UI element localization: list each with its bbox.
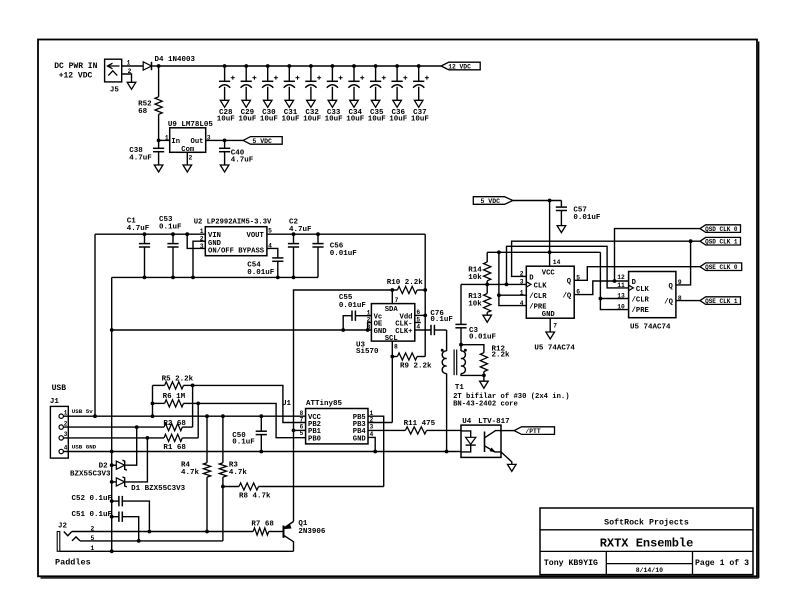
junction Q9 to QSD CLK 1	[689, 239, 693, 243]
wire paddle dah line	[80, 540, 223, 542]
junction C56 top	[316, 232, 320, 236]
svg-text:3: 3	[520, 278, 524, 285]
svg-text:Si570: Si570	[356, 348, 379, 356]
svg-text:5 VDC: 5 VDC	[481, 198, 501, 205]
optocoupler U4 LTV-817	[461, 425, 501, 457]
svg-text:D1 BZX55C3V3: D1 BZX55C3V3	[131, 485, 186, 493]
svg-text:PB0: PB0	[308, 436, 321, 444]
junction 12V at D4 cathode	[157, 64, 161, 68]
svg-text:1: 1	[165, 135, 169, 142]
svg-text:10uF: 10uF	[389, 116, 408, 124]
resistor R14 10k	[486, 252, 488, 262]
wire SDA over-route to PB1	[294, 290, 393, 522]
svg-text:U2 LP2992AIM5-3.3V: U2 LP2992AIM5-3.3V	[194, 218, 272, 226]
svg-text:/PRE: /PRE	[529, 303, 547, 311]
junction R6 right	[196, 402, 200, 406]
capacitor C30 10uF	[267, 66, 269, 81]
svg-text:USB 5v: USB 5v	[72, 408, 93, 415]
svg-text:8/14/10: 8/14/10	[636, 567, 663, 574]
wire CLK line from C3	[461, 283, 526, 285]
svg-text:Com: Com	[181, 146, 195, 154]
svg-text:10k: 10k	[468, 274, 482, 282]
svg-text:4.7uF: 4.7uF	[289, 226, 312, 234]
net tag /PTT	[514, 427, 554, 435]
svg-text:10uF: 10uF	[260, 116, 279, 124]
junction T1 ground	[445, 450, 449, 454]
junction C50 top	[259, 414, 263, 418]
resistor R52 68	[155, 97, 162, 115]
zener D2 BZX55C3V3	[112, 464, 117, 466]
svg-text:12: 12	[617, 274, 625, 281]
svg-text:BZX55C3V3: BZX55C3V3	[70, 470, 111, 478]
svg-text:10k: 10k	[468, 300, 482, 308]
capacitor C50 0.1uF	[260, 416, 262, 431]
svg-text:4.7uF: 4.7uF	[127, 225, 150, 233]
capacitor C51 0.1uF	[112, 516, 119, 518]
connector J1	[50, 406, 68, 458]
resistor R9 2.2k	[392, 356, 397, 358]
power tag 5 VDC mid	[473, 197, 513, 205]
capacitor C40 4.7uF	[224, 140, 226, 148]
svg-text:4: 4	[520, 300, 524, 307]
junction C2 top	[292, 232, 296, 236]
junction VCC 5V line	[548, 250, 552, 254]
capacitor C32 10uF	[310, 66, 312, 81]
svg-text:VCC: VCC	[542, 269, 556, 277]
title block column divider right	[692, 551, 694, 574]
resistor R6 1M	[153, 402, 165, 404]
wire U9 Out to 5VDC tag	[206, 139, 243, 141]
wire U2 VOUT 3.3V rail	[267, 233, 425, 235]
wire Q9 up to QSD CLK 1	[676, 241, 691, 285]
junction C2 bottom	[292, 276, 296, 280]
svg-text:4.7k: 4.7k	[181, 469, 200, 477]
capacitor C54 0.01uF	[272, 257, 283, 259]
diode D4 1N4003	[143, 62, 151, 70]
wire OE stub to ground	[368, 323, 372, 331]
wire SDA pin7 stub	[391, 290, 393, 304]
resistor R1 68	[164, 434, 182, 441]
svg-text:12 VDC: 12 VDC	[448, 63, 471, 70]
junction C53 bottom	[171, 276, 175, 280]
wire PB5 to R8	[368, 416, 384, 486]
junction R4 bottom	[205, 530, 209, 534]
svg-text:2: 2	[520, 271, 524, 278]
junction 5V to U5a CLR	[497, 250, 501, 254]
jack J2 tip contact	[64, 532, 72, 536]
junction C55 to ground line	[341, 328, 345, 332]
wire CLK over to U5b pin11	[507, 246, 629, 288]
junction C52 left	[110, 499, 114, 503]
transformer T1 right winding	[461, 351, 465, 374]
wire VIN rail	[95, 233, 205, 235]
junction CLK up-over	[505, 283, 509, 287]
wire Vdd stub	[415, 314, 425, 316]
wire SCL down to PB3	[391, 357, 393, 423]
svg-text:DC PWR IN: DC PWR IN	[54, 62, 97, 71]
svg-text:10uF: 10uF	[325, 116, 344, 124]
wire +12V rail	[159, 65, 442, 67]
svg-text:10uF: 10uF	[238, 116, 257, 124]
net tag QSE CLK 0	[700, 263, 742, 271]
svg-text:R11 475: R11 475	[404, 420, 436, 428]
zener D1 BZX55C3V3	[112, 481, 117, 483]
svg-text:D4 1N4003: D4 1N4003	[155, 56, 196, 64]
net tag QSD CLK 0	[700, 225, 741, 233]
jack J2 ring contact	[72, 537, 80, 541]
svg-text:/CLR: /CLR	[529, 293, 547, 301]
svg-text:2: 2	[200, 236, 204, 243]
wire D+ to PB0	[198, 403, 305, 437]
ground at C28	[220, 100, 229, 107]
junction U2 GND to bus	[191, 276, 195, 280]
capacitor C57 0.01uF	[560, 201, 562, 208]
junction C30 on 12V rail	[266, 64, 270, 68]
ground at C35	[371, 100, 380, 107]
svg-text:QSD CLK 0: QSD CLK 0	[705, 226, 738, 233]
capacitor C34 10uF	[353, 66, 355, 81]
svg-text:Q: Q	[669, 283, 674, 291]
resistor R7 68	[253, 528, 269, 535]
svg-text:2: 2	[189, 155, 193, 162]
ground at C29	[242, 100, 251, 107]
title block column divider left	[605, 551, 607, 574]
jack J2 sleeve	[57, 532, 60, 552]
junction U9 input	[157, 139, 161, 143]
junction SCL	[390, 355, 394, 359]
svg-text:7: 7	[300, 417, 304, 424]
svg-text:1: 1	[200, 228, 204, 235]
capacitor C36 10uF	[396, 66, 398, 81]
svg-text:U9 LM78L05: U9 LM78L05	[168, 121, 214, 129]
junction C28 on 12V rail	[223, 64, 227, 68]
ground at R13	[483, 315, 492, 322]
svg-text:4.7uF: 4.7uF	[231, 157, 254, 165]
wire T1 secondary top	[460, 345, 462, 351]
svg-text:8: 8	[394, 344, 398, 351]
junction C33 on 12V rail	[331, 64, 335, 68]
wire ON/OFF to VIN	[187, 234, 205, 248]
ground at U4 emitter	[508, 464, 517, 471]
wire U9 Com to ground	[186, 152, 188, 165]
wire ground bus down left side	[111, 277, 113, 551]
svg-text:CLK: CLK	[636, 286, 650, 294]
wire 5V to U5a /CLR and /PRE	[499, 252, 526, 305]
wire to U5a pin1 /CLR	[499, 294, 526, 296]
junction R6 left	[151, 402, 155, 406]
title block row divider 2	[540, 550, 753, 552]
svg-text:3: 3	[200, 243, 204, 250]
svg-text:5 VDC: 5 VDC	[252, 138, 272, 145]
ground at C34	[350, 100, 359, 107]
wire paddle sleeve line	[60, 550, 294, 552]
wire U2 GND stub	[193, 241, 205, 277]
junction R3 top	[221, 414, 225, 418]
wire D- to PB2	[193, 385, 306, 422]
wire USB5V riser to U2 VIN rail	[94, 234, 96, 416]
wire to R12 top	[461, 345, 484, 353]
junction VCC feed	[548, 199, 552, 203]
svg-text:J1: J1	[50, 398, 60, 406]
svg-text:4: 4	[64, 445, 68, 452]
junction D2 clamp	[135, 425, 139, 429]
svg-text:GND: GND	[353, 436, 367, 444]
wire Q5 to QSE CLK 0	[574, 267, 700, 281]
junction D1 anode	[110, 480, 114, 484]
junction /CLR U5a	[497, 293, 501, 297]
svg-text:J2: J2	[58, 523, 68, 531]
svg-text:In: In	[171, 138, 180, 146]
wire R12 to ground	[483, 375, 485, 381]
svg-text:2.2k: 2.2k	[492, 352, 511, 360]
svg-text:BN-43-2402 core: BN-43-2402 core	[453, 401, 518, 409]
svg-text:10: 10	[617, 304, 625, 311]
resistor R3 4.7k	[222, 416, 224, 463]
junction ground bus tie	[110, 450, 114, 454]
ground at C37	[414, 100, 423, 107]
svg-text:10uF: 10uF	[411, 116, 430, 124]
wire 5V pullup line	[487, 251, 600, 253]
junction SDA to PB1	[292, 429, 296, 433]
wire U4 emitter to ground	[495, 452, 512, 465]
resistor R12 2.2k	[480, 353, 487, 372]
junction C34 on 12V rail	[352, 64, 356, 68]
power tag 5 VDC	[243, 137, 282, 145]
wire QSD CLK 1 net to U5a D	[512, 241, 700, 276]
regulator U9 LM78L05	[170, 128, 206, 153]
capacitor C1 4.7uF	[144, 234, 146, 243]
ground at U5a	[546, 332, 555, 339]
junction C51 left	[110, 515, 114, 519]
resistor R11 475	[405, 427, 426, 434]
svg-text:Out: Out	[191, 138, 204, 146]
svg-text:RXTX Ensemble: RXTX Ensemble	[600, 537, 694, 551]
junction R8 tap	[221, 485, 225, 489]
svg-text:GND: GND	[208, 240, 222, 248]
svg-text:D: D	[529, 274, 534, 282]
junction R4 top	[205, 414, 209, 418]
junction ON/OFF tie	[185, 232, 189, 236]
flip-flop U5b 74AC74	[629, 272, 676, 318]
svg-text:3: 3	[370, 424, 374, 431]
junction R5R6 left	[151, 414, 155, 418]
svg-text:LTV-817: LTV-817	[478, 418, 510, 426]
wire QSD CLK 0	[615, 229, 701, 281]
wire to U5b pin13 /CLR	[600, 298, 628, 300]
svg-text:2N3906: 2N3906	[298, 528, 326, 536]
ground at C57	[557, 226, 566, 233]
svg-text:SoftRock Projects: SoftRock Projects	[604, 518, 689, 528]
wire USB D+ line with R1	[63, 437, 164, 439]
svg-text:4.7k: 4.7k	[229, 469, 248, 477]
wire CLK+ down to T1 primary	[446, 330, 448, 351]
svg-text:R10 2.2k: R10 2.2k	[387, 279, 424, 287]
svg-text:BYPASS: BYPASS	[238, 248, 265, 256]
wire USB D- line with R2	[63, 426, 164, 428]
svg-text:USB GND: USB GND	[72, 444, 97, 451]
svg-text:SDA: SDA	[385, 306, 399, 314]
wire PB1 stub	[294, 429, 306, 431]
J1 pin1 circle	[59, 414, 63, 418]
svg-text:7: 7	[553, 322, 557, 329]
svg-text:14: 14	[553, 259, 561, 266]
wire 5VDC to C57	[513, 200, 562, 202]
svg-text:10uF: 10uF	[217, 116, 236, 124]
wire 3.3V down to Vdd	[424, 234, 426, 356]
wire PB4 to R11	[368, 429, 405, 431]
svg-text:4.7uF: 4.7uF	[129, 154, 152, 162]
transformer T1 core	[453, 350, 455, 376]
svg-text:U5 74AC74: U5 74AC74	[630, 324, 671, 332]
svg-text:13: 13	[617, 293, 625, 300]
wire R1 up to R6	[197, 403, 199, 438]
wire GND pin4	[368, 437, 375, 451]
net tag QSD CLK 1	[700, 237, 741, 245]
svg-text:QSE CLK 0: QSE CLK 0	[705, 264, 738, 271]
wire /Q8 to QSE CLK 1	[676, 300, 700, 302]
title block row divider 1	[540, 529, 753, 531]
capacitor C2 4.7uF	[293, 234, 295, 243]
svg-text:0.1uF: 0.1uF	[159, 224, 182, 232]
junction C36 on 12V rail	[395, 64, 399, 68]
svg-text:0.01uF: 0.01uF	[469, 333, 497, 341]
ground at C31	[285, 100, 294, 107]
wire PB3 stub	[368, 422, 392, 424]
ground at R12	[480, 381, 489, 388]
wire into U9 pin1	[159, 139, 170, 141]
junction C32 on 12V rail	[309, 64, 313, 68]
resistor R2 68	[164, 424, 182, 431]
wire D4 junction down to R52	[158, 66, 160, 97]
T1 phase dot right	[464, 349, 467, 352]
capacitor C38 4.7uF	[158, 140, 160, 148]
capacitor C76 0.1uF on CLK+	[415, 329, 431, 331]
ground at C36	[393, 100, 402, 107]
net tag QSE CLK 1	[700, 297, 741, 305]
ground at C40	[220, 165, 229, 172]
svg-text:CLK: CLK	[534, 282, 548, 290]
junction C53 top	[171, 232, 175, 236]
title block border	[540, 508, 753, 575]
svg-text:0.01uF: 0.01uF	[573, 214, 601, 222]
svg-text:/PTT: /PTT	[526, 428, 541, 435]
svg-text:QSE CLK 1: QSE CLK 1	[705, 298, 738, 305]
svg-text:D2: D2	[99, 463, 109, 471]
wire T1 secondary bottom to R12	[461, 374, 484, 376]
U4 LED	[461, 431, 471, 437]
T1 phase dot left	[441, 349, 444, 352]
svg-text:Tony KB9YIG: Tony KB9YIG	[544, 559, 598, 568]
junction R10 right	[423, 288, 427, 292]
wire 3.3V ground bus	[112, 276, 318, 278]
svg-text:11: 11	[617, 282, 625, 289]
wire VCC down to pin14	[549, 201, 551, 267]
ground at U9 Com	[183, 165, 192, 172]
svg-text:0.01uF: 0.01uF	[339, 302, 367, 310]
junction C1 bottom	[143, 276, 147, 280]
power tag 12 VDC	[441, 62, 480, 70]
capacitor C31 10uF	[288, 66, 290, 81]
svg-text:7: 7	[395, 297, 399, 304]
svg-text:Page 1 of 3: Page 1 of 3	[695, 558, 749, 568]
junction C54 bottom	[276, 276, 280, 280]
connector J5	[105, 59, 122, 82]
svg-text:R5 2.2k: R5 2.2k	[162, 375, 194, 383]
wire U4 output to PTT tag	[501, 430, 514, 432]
svg-text:68: 68	[138, 108, 148, 116]
J1 pin4 circle	[59, 449, 63, 453]
junction QSD CLK 0 tap	[613, 279, 617, 283]
svg-text:1: 1	[64, 409, 68, 416]
svg-text:J5: J5	[110, 86, 120, 94]
wire USB 5V line to ATtiny VCC	[63, 415, 305, 417]
junction OE ground	[366, 328, 370, 332]
svg-text:3: 3	[64, 431, 68, 438]
resistor R13 10k	[486, 284, 488, 293]
U4 phototransistor	[484, 432, 486, 453]
svg-text:Paddles: Paddles	[55, 558, 91, 568]
junction C50 bottom	[259, 450, 263, 454]
svg-text:SCL: SCL	[385, 335, 398, 343]
capacitor C52 0.1uF	[112, 500, 119, 502]
svg-text:R6 1M: R6 1M	[163, 393, 186, 401]
wire R2 up to R5	[192, 385, 194, 427]
wire U2 BYPASS to C54	[267, 248, 278, 258]
svg-text:0.01uF: 0.01uF	[247, 269, 275, 277]
wire J5 pin2	[122, 74, 132, 82]
svg-text:R7 68: R7 68	[251, 521, 274, 529]
junction C40	[223, 139, 227, 143]
junction D1 clamp	[146, 436, 150, 440]
svg-text:U4: U4	[462, 418, 472, 426]
junction C29 on 12V rail	[244, 64, 248, 68]
junction 5V riser	[93, 414, 97, 418]
junction ground bus corner	[110, 328, 114, 332]
svg-text:QSD CLK 1: QSD CLK 1	[705, 239, 738, 246]
wire Si570 ground line	[112, 329, 372, 331]
junction Vdd	[423, 314, 427, 318]
J1 pin2 circle	[59, 425, 63, 429]
capacitor C37 10uF	[418, 66, 420, 81]
junction /CLR U5b	[599, 297, 603, 301]
wire J5 pin1 to D4	[122, 65, 144, 67]
svg-text:R8 4.7k: R8 4.7k	[239, 492, 271, 500]
wire R52 to U9 In	[158, 114, 160, 140]
transistor Q1 2N3906	[283, 526, 285, 538]
flip-flop U5a 74AC74	[526, 266, 574, 318]
wire /Q6 to U5b D	[574, 281, 628, 295]
svg-text:T1: T1	[455, 384, 465, 392]
svg-text:/CLR: /CLR	[632, 296, 650, 304]
junction SDA	[390, 288, 394, 292]
svg-text:GND: GND	[542, 311, 556, 319]
wire CLK- stub	[415, 322, 421, 324]
svg-text:10uF: 10uF	[368, 116, 387, 124]
junction C35 on 12V rail	[374, 64, 378, 68]
svg-text:ATTiny85: ATTiny85	[306, 400, 343, 408]
ground at C33	[328, 100, 337, 107]
svg-text:Q: Q	[567, 278, 572, 286]
junction R14 bottom	[485, 283, 489, 287]
junction C31 on 12V rail	[287, 64, 291, 68]
junction C37 on 12V rail	[417, 64, 421, 68]
svg-text:2: 2	[64, 420, 68, 427]
svg-text:Q1: Q1	[298, 520, 308, 528]
capacitor C29 10uF	[245, 66, 247, 81]
svg-text:0.1uF: 0.1uF	[232, 439, 255, 447]
svg-text:/Q: /Q	[563, 292, 572, 300]
wire paddle dit line	[72, 531, 253, 533]
